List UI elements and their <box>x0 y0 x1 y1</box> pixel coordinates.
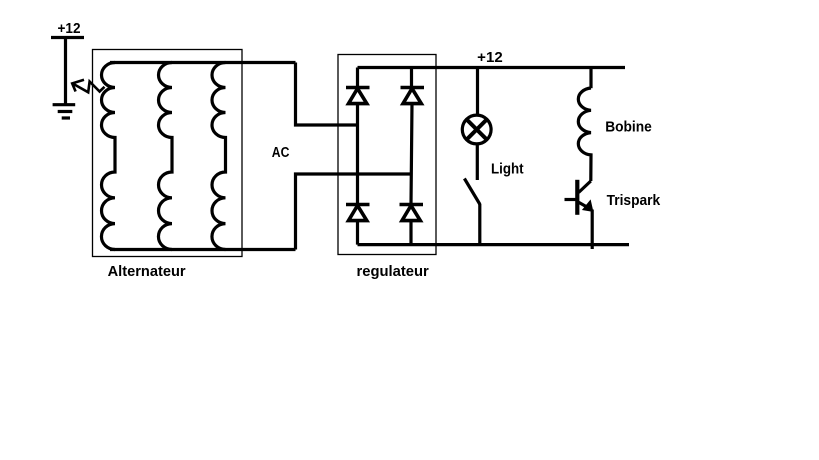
DC+ bus wire <box>358 66 626 69</box>
regulator box <box>338 55 436 255</box>
wire emitter to DC- bus <box>591 210 594 250</box>
svg-text:AC: AC <box>272 145 290 161</box>
diode D1 <box>346 88 370 104</box>
bridge right leg <box>411 68 412 245</box>
svg-text:Alternateur: Alternateur <box>108 264 186 280</box>
switch blade <box>464 179 480 205</box>
bridge left leg <box>356 68 359 245</box>
svg-text:+12: +12 <box>477 50 503 66</box>
svg-text:Bobine: Bobine <box>605 119 652 135</box>
svg-text:regulateur: regulateur <box>357 264 430 280</box>
excitation arrow (hand-drawn) <box>72 80 104 93</box>
+12 supply terminal <box>51 38 84 106</box>
svg-text:Trispark: Trispark <box>607 193 662 209</box>
diode D4 <box>400 205 424 221</box>
transistor Trispark <box>565 180 593 215</box>
stator winding L2 <box>158 63 172 250</box>
AC wire bottom <box>296 174 412 250</box>
wire switch to DC- bus <box>478 204 481 245</box>
DC- bus wire <box>358 243 630 246</box>
svg-text:+12: +12 <box>58 21 81 37</box>
indicator lamp <box>462 115 491 144</box>
diode D2 <box>401 88 425 104</box>
wire bus to lamp <box>476 68 479 116</box>
ignition coil Bobine <box>578 88 591 181</box>
stator winding L1 <box>101 63 115 250</box>
top stator bus wire <box>110 61 296 64</box>
diode D3 <box>346 205 370 221</box>
wire bus to coil <box>589 68 592 89</box>
ground <box>53 105 76 118</box>
bottom stator bus wire <box>110 248 296 251</box>
wire lamp to switch <box>476 144 479 180</box>
svg-text:Light: Light <box>491 161 524 177</box>
stator winding L3 <box>212 63 226 250</box>
alternator box <box>93 50 243 257</box>
AC wire top <box>296 63 358 126</box>
